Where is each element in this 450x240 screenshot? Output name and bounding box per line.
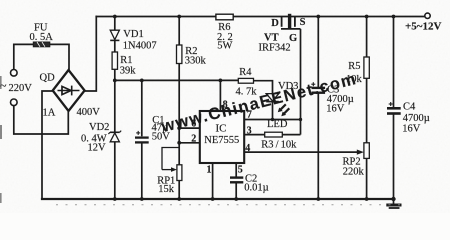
wire R2 down to RP1 <box>178 64 180 165</box>
wire pin 6 <box>179 127 200 129</box>
svg-text:R3 / 10k: R3 / 10k <box>261 139 297 150</box>
wire VD2 column <box>114 80 116 132</box>
wire C4 column top <box>393 17 395 109</box>
wire C1 top <box>141 80 143 136</box>
svg-text:3: 3 <box>247 125 252 136</box>
svg-text:1N4007: 1N4007 <box>123 41 157 52</box>
svg-text:R4: R4 <box>239 67 252 78</box>
capacitor C4 <box>387 102 401 114</box>
wire C1 to bus <box>141 142 143 199</box>
node LED / pin7 <box>271 118 274 121</box>
node top rail / C4 <box>392 15 396 19</box>
wire R2 column top <box>178 17 180 46</box>
wire C3 column top <box>317 17 319 88</box>
node rail / C1 <box>140 79 144 83</box>
svg-text:330k: 330k <box>185 56 207 67</box>
ground <box>386 205 401 208</box>
svg-text:400V: 400V <box>77 107 101 118</box>
svg-text:16V: 16V <box>326 104 345 115</box>
svg-text:220k: 220k <box>343 167 365 178</box>
wire R1 to 12V rail <box>114 69 116 80</box>
svg-text:2: 2 <box>191 133 196 144</box>
svg-text:5: 5 <box>238 164 243 175</box>
op-amp timer IC NE7555 <box>200 111 244 163</box>
wire RP2 to bus <box>366 158 368 199</box>
wire R3 to gate line <box>282 134 300 136</box>
wire pin 1 <box>212 163 214 199</box>
node rail / VD2 <box>113 79 117 83</box>
node top rail / VD1 <box>113 15 117 19</box>
wire pin 7 <box>244 119 300 121</box>
node bus / pin1 <box>211 197 215 201</box>
wire pin 8 <box>219 80 221 111</box>
wire top rail <box>96 16 425 18</box>
resistor R4 <box>238 78 253 83</box>
resistor R5 <box>364 57 369 78</box>
svg-text:LED: LED <box>267 119 288 130</box>
wire C2 to bus <box>235 182 237 199</box>
svg-text:VD2: VD2 <box>89 122 109 133</box>
wire pin 2 <box>179 142 200 144</box>
svg-text:+5~12V: +5~12V <box>405 20 441 32</box>
node pin2 junction <box>177 141 181 145</box>
wire R4 to LED <box>254 81 273 94</box>
resistor R1 <box>112 52 117 69</box>
svg-text:4700µ: 4700µ <box>403 113 430 124</box>
wire gate line <box>300 29 302 135</box>
wire VD1 column top <box>114 17 116 31</box>
wire AC top lead <box>14 44 34 69</box>
node bus end / C4 <box>391 197 395 201</box>
terminal AC input upper <box>11 70 18 77</box>
svg-text:0.01µ: 0.01µ <box>244 183 268 194</box>
wire pin 4 <box>244 151 357 153</box>
wire 12V rail <box>115 79 239 81</box>
node pin6 junction <box>177 126 181 130</box>
capacitor C2 <box>230 178 243 183</box>
node rail / pin8 <box>219 79 223 83</box>
wire fuse to bridge top <box>50 44 69 70</box>
svg-text:NE7555: NE7555 <box>204 135 239 146</box>
wire LED to pin7 wire <box>272 102 274 120</box>
potentiometer RP1 <box>162 148 182 181</box>
wire VD2 to bus <box>114 142 116 199</box>
wire R5 to RP2 <box>366 78 368 143</box>
wire C4 to ground <box>393 114 395 205</box>
svg-text:D: D <box>271 18 279 29</box>
svg-text:39k: 39k <box>120 65 137 76</box>
LED VD3 <box>266 94 289 117</box>
fuse FU <box>33 42 50 47</box>
svg-text:5W: 5W <box>217 40 232 51</box>
svg-text:IRF342: IRF342 <box>259 42 291 53</box>
node top rail / R2 <box>177 15 181 19</box>
svg-text:IC: IC <box>216 123 227 135</box>
resistor R2 <box>177 45 182 64</box>
zener diode VD2 <box>108 131 121 142</box>
svg-text:VD1: VD1 <box>123 29 143 40</box>
capacitor C3 <box>311 82 325 93</box>
wire C3 to bus <box>317 93 319 199</box>
wire RP1 to bus <box>178 181 180 200</box>
node gate / pin7 <box>299 118 302 121</box>
svg-text:220V: 220V <box>9 83 33 94</box>
svg-text:1A: 1A <box>43 108 56 119</box>
wire pin 5 <box>235 163 237 178</box>
node top rail / C3 <box>316 15 320 19</box>
node bus / C1 <box>140 197 144 201</box>
wire AC bottom to bridge bottom <box>14 106 69 134</box>
svg-text:12V: 12V <box>88 143 107 154</box>
node bus / RP1 <box>177 197 181 201</box>
svg-text:16V: 16V <box>402 124 421 135</box>
wire bridge right to top rail <box>85 17 97 92</box>
terminal output +5~12V <box>425 13 430 18</box>
wire ground bus <box>42 198 394 200</box>
svg-text:1: 1 <box>207 165 212 176</box>
node top rail / R5 <box>365 15 369 19</box>
node bus / VD2 <box>113 197 117 201</box>
wire VD1 to R1 <box>114 40 116 52</box>
transistor VT IRF342 <box>281 14 301 29</box>
svg-text:QD: QD <box>40 72 56 83</box>
potentiometer RP2 <box>357 143 370 159</box>
terminal AC input lower <box>11 99 18 106</box>
diode VD1 <box>110 30 119 40</box>
svg-text:4: 4 <box>245 143 250 154</box>
node bus / C3 <box>316 197 320 201</box>
svg-text:15k: 15k <box>158 184 175 195</box>
scan artifact marks <box>56 204 400 206</box>
wire bridge left to ground bus <box>42 91 53 198</box>
svg-text:S: S <box>300 17 306 28</box>
resistor R3 <box>265 132 283 137</box>
svg-text:0. 5A: 0. 5A <box>30 32 54 43</box>
node bus / RP2 <box>365 197 369 201</box>
wire pin 3 <box>244 134 265 136</box>
wire R5 column top <box>366 17 368 58</box>
svg-text:C4: C4 <box>403 102 416 113</box>
node bus / C2 <box>234 197 238 201</box>
capacitor C1 <box>135 131 149 143</box>
bridge rectifier QD <box>53 70 85 111</box>
resistor R6 <box>216 14 233 20</box>
